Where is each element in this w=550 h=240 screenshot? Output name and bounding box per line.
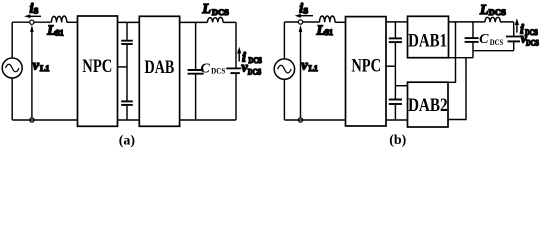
svg-text:(b): (b) [389,133,406,148]
svg-text:v: v [33,59,40,74]
svg-text:L: L [201,2,211,17]
wire top from source to inductor (a) [12,21,51,23]
svg-text:S1: S1 [325,28,333,37]
svg-text:v: v [301,59,308,74]
wire DAB to output corner top (a) [180,21,236,23]
svg-text:NPC: NPC [82,57,112,77]
svg-text:DAB1: DAB1 [408,31,447,51]
DAB2 plus riser (b) [448,22,456,82]
wire left vertical lower (b) [283,79,285,120]
converter block NPC (a) [78,16,118,126]
output return wire (b) [473,50,514,52]
converter block DAB1 (b) [408,16,449,57]
svg-text:DAB2: DAB2 [408,96,448,116]
svg-text:DCS: DCS [212,7,229,17]
dc-link capacitor branch wire (b) [394,22,396,120]
svg-text:S: S [34,6,39,16]
AC source VS (b) [274,59,294,79]
node top (b) [298,20,302,24]
svg-text:NPC: NPC [351,57,381,77]
current arrow iS (a) [24,14,41,18]
svg-text:DCS: DCS [489,7,506,17]
converter block DAB2 (b) [408,82,449,127]
inductor LDCS (b) [485,17,501,22]
output right edge (b) [513,22,515,51]
voltage arrow vL1 (b) [299,25,303,118]
svg-text:S: S [303,5,308,15]
output top rail (b) [449,21,514,23]
wire output right vertical (a) [235,22,237,120]
capacitor C1 upper dc-link (b) [389,38,402,42]
wire NPC to DAB top (a) [118,21,140,23]
wire bottom (a) [12,119,77,121]
wire from inductor to NPC (b) [335,21,346,23]
node bottom (b) [298,118,302,122]
wire top from source to inductor (b) [284,21,319,23]
svg-text:L: L [479,3,489,18]
svg-text:DAB: DAB [145,58,175,78]
svg-text:S1: S1 [55,28,63,37]
voltage terminal bars vDCS (a) [226,67,241,69]
wire dc-link to DAB2 input (b) [395,85,407,87]
svg-text:DCS: DCS [526,39,539,48]
capacitor C2 lower dc-link (a) [121,101,133,105]
neutral point tap wire (a) [118,66,128,68]
wire left vertical upper (a) [11,22,13,58]
svg-text:(a): (a) [119,133,136,148]
capacitor CDCS branch wire (b) [472,22,474,58]
svg-text:DCS: DCS [490,38,504,47]
wire left vertical upper (b) [283,22,285,59]
capacitor C2 lower dc-link (b) [389,100,402,105]
current arrow iDCS (a) [237,47,241,62]
capacitor CDCS (b) [465,38,479,42]
DAB2 minus riser (b) [448,58,466,120]
inductor LDCS (a) [207,17,223,22]
voltage terminal bars vDCS (b) [506,36,521,38]
wire NPC to DAB2 bottom (b) [386,119,408,121]
voltage arrow vL1 (a) [30,25,34,118]
wire NPC to DAB bottom (a) [118,119,140,121]
wire output bottom (a) [180,119,236,121]
svg-text:C: C [200,61,210,76]
converter block NPC (b) [346,17,387,126]
wire left vertical lower (a) [11,78,13,120]
wire NPC to DAB1 top (b) [386,21,408,23]
inductor LS1 (b) [320,16,336,22]
dc-link capacitor branch wire (a) [126,22,128,120]
current arrow iDCS (b) [515,18,519,32]
svg-text:DCS: DCS [211,67,226,76]
node bottom (a) [30,118,34,122]
neutral point tap wire (b) [386,65,395,67]
svg-text:DCS: DCS [249,56,263,65]
current arrow iS (b) [295,14,313,18]
svg-text:C: C [479,32,489,47]
node top (a) [30,20,34,24]
inductor LS1 (a) [51,16,66,22]
svg-text:DCS: DCS [525,28,538,37]
svg-text:DCS: DCS [248,68,262,77]
wire from inductor to NPC (a) [67,21,78,23]
capacitor C1 upper dc-link (a) [121,41,133,44]
AC source VS (a) [2,58,22,78]
wire bottom (b) [284,119,345,121]
capacitor CDCS (a) [188,70,204,74]
capacitor CDCS branch wire (a) [195,22,197,120]
DAB1 minus wire (b) [449,57,474,59]
converter block DAB (a) [139,16,179,126]
svg-text:L1: L1 [309,64,318,73]
svg-text:L1: L1 [40,64,49,73]
